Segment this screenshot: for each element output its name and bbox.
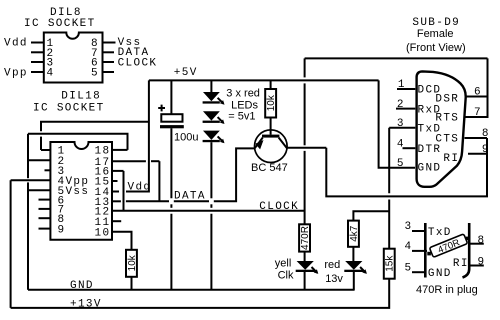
svg-text:5: 5 [91, 68, 99, 80]
DB9 pin 4 stub [403, 147, 416, 149]
DIL18 pin 5 stub [28, 189, 50, 191]
DIL18 pin 1 stub [41, 149, 50, 151]
svg-text:4: 4 [47, 68, 55, 80]
wire +5V rail right drop to DB9 pin5 [379, 80, 415, 167]
svg-text:4: 4 [397, 138, 405, 150]
wire DATA line [126, 200, 169, 202]
svg-text:470R in plug: 470R in plug [416, 284, 478, 296]
inset pin 5 stub [412, 271, 425, 273]
wire GND rail [28, 289, 355, 291]
svg-text:470R: 470R [300, 226, 311, 250]
svg-text:RI: RI [453, 258, 469, 270]
wire pin9 tie [468, 153, 487, 155]
svg-text:10: 10 [95, 227, 111, 239]
wire Vpp net down to +13V [10, 180, 12, 308]
svg-text:yell: yell [275, 258, 292, 270]
inset pin 4 stub [412, 250, 427, 252]
LED D3 arrow [218, 136, 224, 142]
wire CLOCK line (pin 12) [112, 210, 305, 212]
wire CLOCK net vertical (top line to 470R) with hops [304, 58, 306, 77]
resistor 4k7 [348, 221, 359, 247]
svg-text:Vdd: Vdd [128, 182, 152, 194]
DB9 pin 1 stub [397, 88, 415, 90]
LED D4 yellow [297, 261, 314, 270]
DIL8 pin 7 stub [103, 51, 115, 53]
svg-text:7: 7 [474, 107, 482, 119]
wire TxD down (hops collector line) [388, 128, 390, 194]
DIL18 pin 8 stub [39, 217, 51, 219]
inset resistor 470R tilted [429, 234, 468, 259]
DB9 pin 2 stub [396, 108, 415, 110]
LED string D1-D3 wire from rail [210, 80, 212, 92]
resistor 10k (base) drop from rail [270, 80, 272, 89]
DIL18 socket body U2 [50, 142, 112, 240]
transistor Q1 BC547 [254, 130, 287, 163]
svg-text:Clk: Clk [278, 269, 294, 281]
DIL18 pin 18 stub [112, 149, 128, 151]
wire GND net left vertical [27, 134, 29, 178]
svg-text:3 x red: 3 x red [226, 88, 260, 100]
DIL18 pin 11 stub [112, 220, 121, 222]
wire DSR/RTS bracket [464, 58, 488, 117]
svg-text:= 5v1: = 5v1 [228, 111, 255, 123]
svg-text:10k: 10k [127, 254, 138, 271]
LED D1 [203, 92, 220, 101]
DB9 pin 8 stub [465, 137, 488, 139]
wire +5V rail [149, 79, 379, 81]
DIL8 pin 1 stub [31, 42, 44, 44]
DB9 pin 6 stub [465, 96, 467, 98]
DIL8 pin 5 stub [103, 71, 115, 73]
DIL18 pin 3 stub [45, 169, 51, 171]
DIL8 pin 2 stub [31, 51, 44, 53]
SUB-D9 body outline [417, 71, 466, 186]
DIL18 pin 17 stub (gap at Vdd wire) [112, 160, 146, 162]
wire 4k7 to red LED [352, 247, 354, 261]
svg-text:red: red [324, 259, 340, 271]
svg-text:8: 8 [478, 235, 486, 247]
wire pin17 down to DATA [158, 161, 160, 201]
svg-text:RI: RI [443, 153, 459, 165]
wire collector down and right to pins 8/9 [326, 138, 487, 196]
wire top line CLOCK to DSR/RTS [305, 57, 488, 59]
svg-text:2: 2 [397, 99, 405, 111]
capacitor C1 plus sign [158, 105, 165, 112]
svg-text:100u: 100u [174, 131, 198, 143]
svg-text:3: 3 [397, 118, 405, 130]
LED D2 arrow [218, 117, 224, 123]
wire over-top to pin 18 [28, 134, 128, 150]
inset plug left bar [424, 223, 427, 278]
DIL8 pin 8 stub [103, 42, 116, 44]
wire Vdd under label to +5V [126, 80, 149, 191]
DIL18 pin 15 stub [112, 180, 118, 182]
resistor 10k (pin10 to GND) [126, 250, 137, 277]
svg-text:4: 4 [405, 241, 413, 253]
wire 10k to transistor base [270, 118, 272, 135]
wire yellow LED to GND rail [304, 272, 306, 290]
svg-text:15k: 15k [385, 255, 396, 272]
DIL18 pin 4 Vpp long stub [11, 179, 51, 181]
capacitor C1 bottom plate [160, 125, 184, 128]
DIL8 pin 4 stub [31, 71, 44, 73]
wire red LED to GND rail [353, 272, 355, 290]
svg-text:9: 9 [482, 144, 490, 156]
wire collector lead right [287, 147, 326, 149]
inset solder dot left [427, 252, 431, 256]
DB9 pin 3 stub [389, 127, 415, 129]
svg-text:Vpp: Vpp [4, 67, 28, 79]
resistor 470R (CLOCK LED) [299, 224, 310, 251]
svg-text:(Front View): (Front View) [406, 42, 466, 54]
capacitor C1 wire bottom to GND (hops DATA+CLOCK) [170, 128, 172, 198]
inset pin 8 stub [471, 243, 484, 245]
capacitor C1 100u wire top [170, 80, 172, 114]
svg-text:BC 547: BC 547 [251, 162, 288, 174]
svg-text:18: 18 [95, 146, 111, 158]
LED D1 arrow [218, 98, 224, 104]
DIL8 pin 6 stub [103, 61, 115, 63]
LED string wire to GND (hops DATA+CLOCK) [210, 142, 212, 198]
svg-text:CLOCK: CLOCK [259, 201, 299, 213]
wire pin6 tie [466, 96, 488, 98]
svg-text:5: 5 [405, 262, 413, 274]
LED D3 [203, 131, 220, 140]
resistor 15k [384, 249, 395, 279]
LED D2 [203, 111, 220, 120]
wire TxD corner to 4k7 [353, 211, 389, 220]
wire +13V rail [11, 279, 390, 308]
svg-text:6: 6 [474, 87, 482, 99]
DIL18 pin 16 stub [112, 170, 124, 172]
svg-text:IC SOCKET: IC SOCKET [24, 18, 96, 30]
svg-text:GND: GND [418, 162, 442, 174]
wire pin1 up to +5V feed [40, 137, 42, 150]
svg-text:DATA: DATA [174, 191, 206, 203]
svg-text:4k7: 4k7 [349, 225, 360, 242]
DIL18 pin 14 stub [112, 191, 119, 193]
svg-text:Female: Female [417, 28, 454, 40]
inset pin 9 stub [471, 265, 484, 267]
transistor collector diagonal [279, 138, 287, 149]
svg-text:9: 9 [478, 257, 486, 269]
svg-text:DTR: DTR [418, 144, 442, 156]
svg-text:+5V: +5V [174, 67, 198, 79]
svg-text:GND: GND [70, 280, 94, 292]
inset plug right bar (RI side) [463, 223, 470, 278]
LED D5 red [345, 261, 362, 270]
svg-text:Vdd: Vdd [4, 38, 28, 50]
svg-text:DIL18: DIL18 [61, 91, 101, 103]
DIL8 pin 3 stub [31, 61, 44, 63]
svg-text:8: 8 [482, 128, 490, 140]
svg-text:9: 9 [58, 224, 66, 236]
svg-text:TxD: TxD [428, 227, 452, 239]
svg-text:3: 3 [405, 221, 413, 233]
DIL18 pin 9 stub [39, 228, 51, 230]
DIL18 pin 6 stub [39, 199, 51, 201]
svg-text:13v: 13v [325, 273, 343, 285]
svg-text:+13V: +13V [70, 298, 102, 310]
DIL18 pin 2 stub [28, 159, 50, 161]
svg-text:10k: 10k [266, 94, 277, 111]
svg-text:GND: GND [428, 268, 452, 280]
DIL18 pin 7 stub [39, 208, 51, 210]
svg-text:1: 1 [398, 79, 406, 91]
svg-text:IC SOCKET: IC SOCKET [33, 103, 105, 115]
svg-text:CLOCK: CLOCK [118, 58, 158, 70]
DIL18 pin 10 stub to resistor [112, 232, 132, 250]
wire 10k to GND rail [131, 277, 133, 290]
svg-text:5: 5 [397, 158, 405, 170]
inset pin 3 stub [412, 230, 425, 232]
inset solder dot right [466, 237, 470, 241]
wire 470R to yellow LED [304, 252, 306, 261]
transistor emitter diagonal with arrow [255, 138, 263, 149]
capacitor C1 top plate [161, 114, 182, 122]
transistor base bar [262, 135, 279, 138]
wire pin16 down to CLOCK [123, 171, 125, 211]
DIL18 pin 13 stub [112, 200, 121, 202]
DIL8 socket body U1 [44, 33, 103, 83]
